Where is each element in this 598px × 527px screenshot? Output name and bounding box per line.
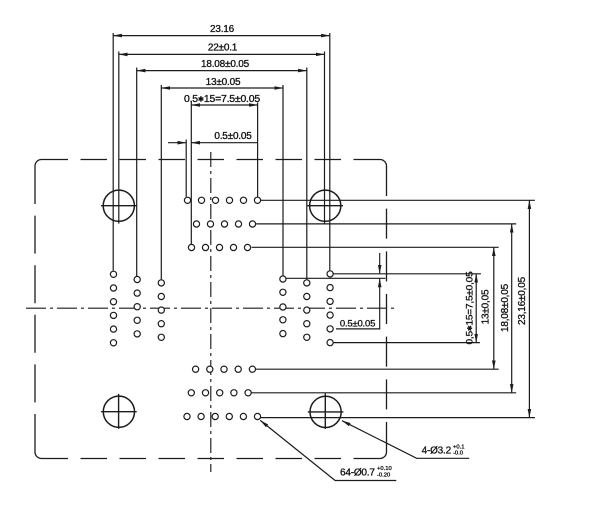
- left hole cluster col 1 (6 holes): [110, 271, 116, 346]
- leader colC bottom: [333, 342, 480, 344]
- dimension 22±0.1: [119, 43, 325, 55]
- bottom hole cluster row 3 (6 holes): [184, 413, 261, 419]
- leader bottom row3: [261, 417, 535, 419]
- svg-text:-0.0: -0.0: [453, 451, 463, 457]
- dimension 13±0.05: [161, 77, 283, 88]
- mounting hole BL (ø3.2): [101, 394, 137, 429]
- dimension 23.16: [113, 24, 330, 36]
- mounting hole TR (ø3.2): [307, 190, 343, 221]
- extension line 13 right: [282, 85, 284, 276]
- extension line 7.5 left / 0.5 right: [190, 101, 192, 244]
- svg-text:64-Ø0.7: 64-Ø0.7: [340, 468, 375, 479]
- svg-text:13±0,05: 13±0,05: [480, 289, 491, 324]
- extension line 13 left: [160, 85, 162, 279]
- mounting hole BR (ø3.2): [308, 394, 344, 430]
- svg-text:13±0.05: 13±0.05: [206, 77, 241, 88]
- dimension 0.5±0.05 (top): [168, 131, 257, 143]
- leader bottom row2: [251, 392, 516, 394]
- leader bottom row1: [256, 368, 499, 370]
- svg-text:+0.1: +0.1: [453, 444, 464, 450]
- top hole cluster row 2 (5 holes): [193, 221, 255, 227]
- horizontal centerline: [26, 307, 394, 309]
- callout 64-ø0.7 leader: [260, 420, 396, 480]
- callout 4-ø3.2 text: [422, 444, 465, 456]
- leader top row2: [256, 223, 517, 225]
- extension line 23.16 right: [329, 33, 331, 270]
- leader colC top: [333, 273, 481, 275]
- extension line 18.08 right: [306, 68, 308, 280]
- svg-text:0,5✱15=7,5±0,05: 0,5✱15=7,5±0,05: [464, 272, 475, 345]
- dimension 0.5±0.05 (right, outside arrows): [340, 253, 380, 330]
- extension line 0.5 left: [185, 140, 187, 197]
- top hole cluster row 3 (5 holes): [188, 244, 250, 250]
- extension line 22 left: [118, 52, 120, 224]
- extension line 18.08 left: [136, 68, 138, 277]
- dimension 18.08±0.05: [137, 59, 307, 70]
- mounting hole TL (ø3.2): [101, 190, 137, 221]
- right hole cluster col B (5 holes): [304, 280, 310, 341]
- svg-text:+0.10: +0.10: [377, 466, 392, 472]
- dimension 0,5*15=7,5±0,05 (vertical): [464, 272, 476, 345]
- callout 4-ø3.2 leader: [342, 421, 469, 459]
- svg-text:-0.20: -0.20: [377, 473, 390, 479]
- svg-text:18,08±0,05: 18,08±0,05: [500, 283, 511, 332]
- bottom hole cluster row 2 (5 holes): [188, 390, 251, 396]
- leader top row1: [261, 199, 535, 201]
- dimension 18,08±0,05 (vertical): [500, 224, 512, 393]
- top hole cluster row 1 (6 holes): [184, 197, 260, 203]
- extension line 7.5 right: [257, 103, 259, 197]
- svg-text:22±0.1: 22±0.1: [208, 43, 238, 54]
- vertical centerline: [210, 152, 212, 472]
- left hole cluster col 3 (5 holes): [158, 280, 164, 341]
- svg-text:0.5±0.05: 0.5±0.05: [340, 319, 375, 330]
- right hole cluster col C (6 holes): [327, 271, 333, 346]
- svg-text:23.16: 23.16: [210, 24, 235, 35]
- bottom hole cluster row 1 (5 holes): [193, 366, 256, 372]
- right hole cluster col A (5 holes): [280, 276, 286, 337]
- dimension 13±0,05 (vertical): [480, 247, 494, 369]
- leader 0.5 label shelf: [336, 328, 380, 330]
- svg-text:18.08±0.05: 18.08±0.05: [201, 59, 250, 70]
- dimension 23,16±0,05 (vertical): [517, 200, 530, 417]
- left hole cluster col 2 (5 holes): [134, 276, 140, 337]
- body outline (dashed plate): [35, 160, 387, 459]
- leader top row3: [252, 246, 499, 248]
- extension line 22 right: [324, 52, 326, 224]
- svg-text:0.5✱15=7.5±0.05: 0.5✱15=7.5±0.05: [184, 94, 261, 105]
- leader colA top: [286, 277, 386, 279]
- svg-text:0.5±0.05: 0.5±0.05: [214, 131, 252, 142]
- dimension 0.5*15=7.5±0.05: [184, 94, 261, 105]
- svg-text:4-Ø3.2: 4-Ø3.2: [422, 446, 452, 457]
- svg-text:23,16±0,05: 23,16±0,05: [517, 276, 528, 325]
- extension line 23.16 left: [112, 33, 114, 271]
- callout 64-ø0.7 text: [340, 466, 392, 478]
